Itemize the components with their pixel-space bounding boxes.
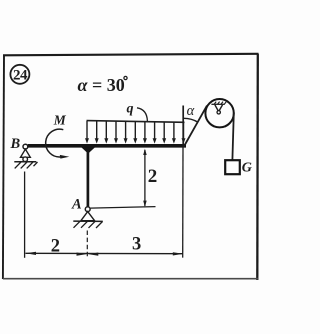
pin circle at B <box>23 144 28 149</box>
frame left border <box>3 55 4 280</box>
pin circle at A <box>85 207 90 212</box>
svg-text:α = 30: α = 30 <box>78 75 125 95</box>
svg-text:M: M <box>53 112 67 127</box>
dim arrow left (points left) <box>26 252 36 255</box>
dim arrow mid-right (points left) <box>88 253 98 256</box>
q leader curve <box>137 108 147 121</box>
svg-text:A: A <box>71 197 82 213</box>
frame bottom border <box>3 278 258 280</box>
svg-text:q: q <box>127 101 134 116</box>
diagonal cable <box>184 106 207 147</box>
column member A <box>87 149 90 207</box>
pulley mount ceiling line <box>211 103 224 105</box>
pulley axle circle <box>217 111 220 114</box>
svg-text:B: B <box>10 136 21 152</box>
frame right border <box>256 54 259 280</box>
beam <box>28 144 186 148</box>
moment arrowhead <box>60 155 70 159</box>
moment arc <box>46 129 64 157</box>
ground hatching at B <box>15 162 38 168</box>
dim arrow mid-left (points right) <box>77 253 87 256</box>
svg-text:α: α <box>187 103 195 119</box>
svg-text:2: 2 <box>51 237 60 257</box>
dim arrow right (points right) <box>173 252 183 255</box>
horizontal reference line from A <box>90 207 155 209</box>
problem number badge circle 24 <box>10 65 29 84</box>
filled joint triangle at beam-column junction <box>81 147 95 153</box>
distributed load arrows <box>87 121 184 140</box>
alpha angle arc <box>183 118 198 122</box>
right extension line below beam <box>182 147 184 258</box>
bottom dimension line <box>26 252 183 254</box>
middle extension line below A <box>86 231 88 259</box>
svg-text:3: 3 <box>132 235 141 255</box>
support triangle at A <box>81 212 95 221</box>
roller circle at B <box>23 157 28 162</box>
vertical dimension line 2 <box>144 150 146 206</box>
ground line at A <box>73 220 103 222</box>
svg-text:2: 2 <box>148 166 158 187</box>
distributed load top line <box>87 121 185 123</box>
frame top border <box>3 54 259 56</box>
pulley mount bracket V <box>215 105 223 111</box>
svg-text:24: 24 <box>13 67 28 83</box>
weight block G <box>225 160 240 174</box>
right cable down to weight <box>232 113 233 160</box>
support triangle at B <box>21 149 31 157</box>
pulley mount hatching <box>214 102 226 105</box>
pulley circle <box>205 99 233 127</box>
left extension line below B <box>24 172 26 258</box>
vertical line above beam right end <box>182 106 184 148</box>
ground line at B <box>14 161 36 163</box>
svg-text:G: G <box>242 161 252 176</box>
ground hatching at A <box>74 221 103 228</box>
